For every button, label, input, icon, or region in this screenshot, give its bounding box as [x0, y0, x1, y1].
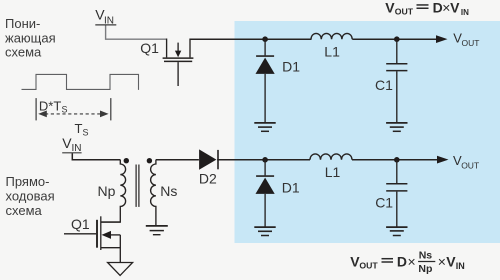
svg-text:T: T [75, 121, 83, 136]
svg-text:×: × [438, 254, 446, 270]
svg-text:OUT: OUT [395, 6, 414, 16]
svg-text:Np: Np [98, 183, 116, 199]
svg-text:жающая: жающая [5, 30, 56, 45]
svg-text:OUT: OUT [462, 38, 480, 48]
svg-text:Пони-: Пони- [5, 16, 40, 31]
svg-text:D1: D1 [282, 58, 300, 74]
svg-text:D: D [397, 254, 407, 270]
svg-text:IN: IN [456, 261, 465, 271]
svg-text:C1: C1 [375, 195, 393, 211]
svg-text:Ns: Ns [160, 183, 177, 199]
svg-text:OUT: OUT [359, 260, 378, 270]
svg-text:Q1: Q1 [71, 216, 90, 232]
svg-text:D*T: D*T [39, 98, 61, 113]
svg-text:L1: L1 [325, 164, 341, 180]
svg-text:D: D [433, 0, 443, 16]
svg-text:ходовая: ходовая [6, 189, 55, 204]
svg-text:L1: L1 [324, 44, 340, 60]
svg-text:S: S [83, 127, 89, 137]
svg-text:D2: D2 [199, 171, 217, 187]
svg-text:V: V [446, 254, 456, 270]
svg-text:схема: схема [5, 45, 42, 60]
svg-text:S: S [62, 105, 68, 115]
svg-text:D1: D1 [282, 180, 300, 196]
svg-text:V: V [385, 0, 395, 16]
svg-text:V: V [450, 0, 460, 16]
svg-text:Q1: Q1 [140, 40, 159, 56]
svg-text:Np: Np [418, 263, 432, 275]
svg-text:×: × [408, 254, 416, 270]
svg-text:Прямо-: Прямо- [6, 174, 50, 189]
svg-text:IN: IN [461, 8, 469, 17]
svg-text:схема: схема [6, 203, 43, 218]
svg-text:Ns: Ns [419, 250, 433, 262]
svg-text:C1: C1 [375, 77, 393, 93]
svg-text:OUT: OUT [461, 160, 479, 170]
